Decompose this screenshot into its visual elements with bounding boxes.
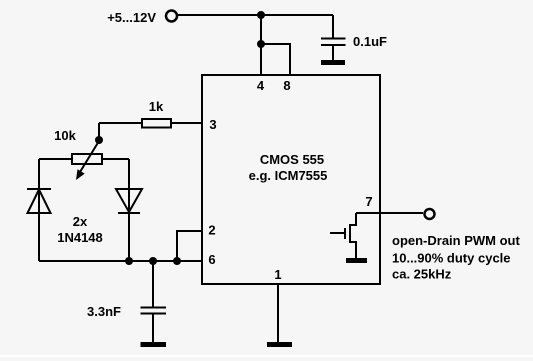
- transistor Q1 source ground bar: [346, 258, 367, 263]
- svg-text:6: 6: [208, 252, 215, 267]
- svg-text:e.g. ICM7555: e.g. ICM7555: [249, 168, 328, 183]
- svg-text:1: 1: [274, 267, 281, 282]
- potentiometer 10k wiper arrow: [80, 141, 99, 172]
- wire: pin 2 lead: [177, 231, 202, 261]
- junction node: pin2 / bottom rail: [173, 257, 181, 265]
- terminal: PWM output circle: [425, 209, 435, 219]
- junction node: wiper: [95, 136, 103, 144]
- ground bar below 0.1uF: [321, 60, 345, 65]
- capacitor 0.1uF plates: [321, 39, 346, 46]
- wire: pot left lead: [39, 158, 72, 160]
- svg-text:3: 3: [209, 117, 216, 132]
- transistor Q1 gate lead: [330, 232, 345, 234]
- wire: pin 8 lead from supply: [261, 44, 290, 75]
- svg-text:ca. 25kHz: ca. 25kHz: [392, 267, 452, 282]
- ground bar pin 1: [267, 342, 292, 347]
- diode D2 1N4148 cathode bar: [118, 212, 140, 214]
- wire: right branch vertical: [128, 159, 130, 261]
- capacitor 3.3nF plates: [141, 308, 167, 314]
- capacitor 0.1uF bottom lead: [332, 46, 334, 61]
- capacitor 3.3nF bottom lead: [152, 314, 154, 342]
- svg-text:1N4148: 1N4148: [57, 230, 103, 245]
- wire: 1k left lead down to wiper node: [99, 123, 142, 140]
- wire: pin 4 lead from supply: [260, 15, 262, 75]
- wire: pot right lead: [102, 158, 129, 160]
- terminal: supply input circle: [166, 11, 177, 22]
- diode D1 1N4148 cathode bar: [27, 188, 51, 190]
- svg-text:+5...12V: +5...12V: [107, 10, 156, 25]
- svg-text:open-Drain PWM out: open-Drain PWM out: [392, 233, 520, 248]
- svg-text:10...90% duty cycle: 10...90% duty cycle: [392, 251, 511, 266]
- diode D2 1N4148 triangle: [116, 189, 142, 212]
- potentiometer 10k body: [72, 154, 102, 164]
- wire: pin 7 output lead: [356, 212, 423, 214]
- wire: left branch vertical: [38, 159, 40, 261]
- diode D1 1N4148 triangle: [28, 190, 51, 214]
- op IC U1 CMOS 555 box: [202, 75, 380, 284]
- svg-text:8: 8: [283, 78, 290, 93]
- transistor Q1 source lead: [350, 242, 356, 258]
- wire: pin 3 lead: [172, 122, 202, 124]
- transistor Q1 gate bar: [344, 228, 346, 239]
- svg-text:CMOS 555: CMOS 555: [260, 152, 324, 167]
- svg-text:3.3nF: 3.3nF: [87, 304, 121, 319]
- junction node: pin4/pin8 split: [257, 40, 265, 48]
- transistor Q1 channel bar: [349, 224, 351, 243]
- ground bar below 3.3nF: [141, 342, 167, 347]
- wire: supply top rail: [178, 14, 333, 16]
- capacitor 0.1uF top lead: [332, 15, 334, 38]
- wire: bottom rail to pin 6: [39, 260, 202, 262]
- svg-text:7: 7: [365, 194, 372, 209]
- junction node: right diode / bottom rail: [125, 257, 133, 265]
- svg-text:2: 2: [208, 223, 215, 238]
- svg-text:0.1uF: 0.1uF: [353, 34, 387, 49]
- potentiometer 10k arrowhead: [76, 169, 85, 180]
- resistor 1k body: [142, 119, 171, 128]
- svg-text:2x: 2x: [73, 214, 88, 229]
- capacitor 3.3nF top lead: [152, 261, 154, 308]
- junction node: supply rail / pin4: [257, 11, 265, 19]
- junction node: 3.3nF / bottom rail: [149, 257, 157, 265]
- transistor Q1 open-drain MOSFET drain lead: [350, 213, 356, 225]
- svg-text:1k: 1k: [149, 99, 164, 114]
- svg-text:10k: 10k: [54, 128, 76, 143]
- svg-text:4: 4: [257, 78, 265, 93]
- wire: pin 1 lead: [277, 284, 279, 342]
